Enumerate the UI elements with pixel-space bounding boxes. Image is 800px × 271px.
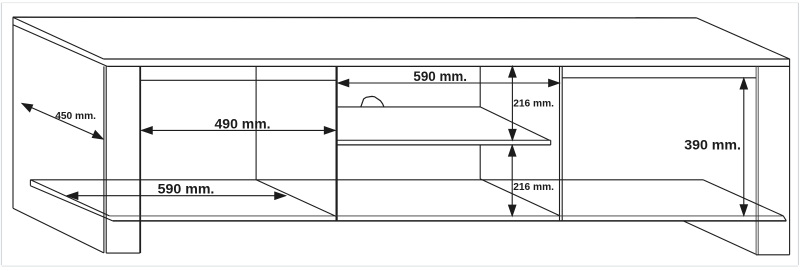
svg-text:450 mm.: 450 mm. (55, 111, 96, 122)
left compartment floor diagonal (256, 180, 336, 216)
middle shelf back edge (338, 106, 481, 108)
bottom shelf right end bevel (783, 216, 786, 221)
top panel back edge (13, 16, 697, 19)
frame border (0, 3, 2, 265)
right panel front bottom edge (756, 254, 790, 256)
middle shelf front top line (336, 139, 551, 141)
middle shelf right end cap (550, 140, 552, 145)
divider 2 line a (559, 66, 561, 220)
right panel front edge vertical a (755, 66, 757, 254)
left panel outer bottom diagonal (13, 208, 104, 253)
top panel right edge diagonal (697, 18, 790, 59)
bottom shelf right diagonal (703, 180, 783, 216)
right panel front edge vertical b (757, 66, 759, 254)
svg-text:590 mm.: 590 mm. (158, 181, 215, 197)
floor back edge (30, 179, 703, 181)
left panel front edge vertical a (103, 66, 105, 253)
bottom shelf left tip upper diagonal (30, 180, 109, 216)
left panel front edge vertical b (105, 66, 107, 253)
left leg front vertical (139, 66, 141, 253)
svg-text:216 mm.: 216 mm. (513, 182, 554, 193)
divider 2 line b (561, 66, 563, 220)
dimension 390 (740, 78, 747, 215)
top panel front band top line (104, 58, 790, 60)
dimension 216 lower (509, 146, 516, 216)
middle interior back corner vertical lower (479, 145, 481, 179)
right panel inner bottom diagonal (684, 221, 756, 254)
bottom band bottom line (113, 220, 787, 222)
left leg bottom edge (106, 252, 140, 254)
bottom shelf left tip lower diagonal (30, 186, 112, 221)
left compartment top rail line (140, 79, 336, 81)
top panel front band bottom line (107, 65, 789, 67)
svg-text:216 mm.: 216 mm. (513, 99, 554, 110)
bottom shelf left tip vertical (29, 180, 31, 186)
dimension 590 bottom (67, 192, 285, 199)
right compartment top rail line (562, 77, 756, 79)
svg-text:490 mm.: 490 mm. (215, 115, 271, 131)
middle shelf right diagonal (480, 107, 549, 140)
svg-text:590 mm.: 590 mm. (413, 69, 467, 84)
divider 1 (336, 66, 338, 221)
dimension 450 (22, 104, 103, 139)
dimension 490 (142, 127, 335, 134)
dimension 216 upper (509, 67, 516, 140)
dimension 590 top (338, 79, 559, 86)
middle compartment floor diagonal (480, 179, 559, 216)
top panel left inner diagonal (13, 25, 107, 67)
left compartment interior back corner vertical (255, 66, 257, 179)
middle shelf bottom line (336, 144, 551, 146)
top panel left edge diagonal (13, 17, 104, 59)
right panel outer vertical (789, 59, 791, 255)
left panel back vertical (12, 17, 14, 208)
bottom band top line (109, 215, 783, 217)
svg-text:390 mm.: 390 mm. (684, 137, 741, 153)
cable hole bump (361, 96, 384, 107)
middle interior back corner vertical upper (479, 66, 481, 107)
